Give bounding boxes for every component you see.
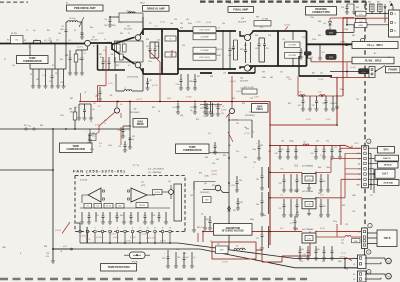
svg-text:DP-B-GND: DP-B-GND [384,182,394,184]
capacitor C3 [65,22,67,44]
svg-text:47µ: 47µ [92,135,95,137]
svg-text:(1.3V): (1.3V) [108,83,113,85]
resistor R6 emitter [75,50,77,73]
svg-text:C68: C68 [323,206,326,208]
svg-text:(0.8V): (0.8V) [254,97,259,99]
label REVERSE CONNECT PRO [306,7,337,15]
svg-text:(0.03V): (0.03V) [113,237,119,239]
wire fan box bottom left step [76,223,87,243]
svg-text:R13: R13 [120,33,123,35]
transistor Q5 2SC2879 [244,65,250,71]
svg-text:R89: R89 [210,116,213,118]
svg-text:L19: L19 [322,52,325,54]
red wire fil W3 [311,61,352,63]
wire drive interstage bottom run [178,68,236,70]
svg-text:R50a: R50a [340,89,344,91]
svg-text:560: 560 [216,159,219,161]
svg-text:C4a: C4a [320,73,323,75]
svg-text:R89a: R89a [189,81,193,83]
svg-text:C8: C8 [169,54,171,56]
svg-text:13: 13 [169,228,171,230]
IC2 ground stub [308,209,310,214]
svg-text:(6V): (6V) [260,27,264,29]
svg-text:12: 12 [162,228,164,230]
svg-text:M: M [388,260,390,263]
label ABSORPTION OF SURGE VOLTAGE [214,224,253,236]
wire Q3 bottom rail [143,73,162,75]
thermistor TH2 box [89,134,96,141]
svg-text:470µ: 470µ [253,149,257,151]
svg-text:C44: C44 [182,45,185,47]
wires to connector block [372,6,393,23]
diode D6 [329,18,331,32]
svg-text:L13: L13 [219,49,222,51]
inductor L4 network box [119,13,143,22]
svg-text:R11: R11 [104,120,107,122]
circled number 2 lower [368,223,372,227]
svg-text:R47: R47 [377,2,380,4]
svg-text:M: M [388,276,390,279]
svg-text:R8 22k: R8 22k [139,205,145,207]
svg-text:R93: R93 [205,157,208,159]
svg-text:(8.1V): (8.1V) [320,228,325,230]
unit boundary dashed line top-left [0,1,28,3]
red wire IC2 out [316,197,345,199]
svg-text:5: 5 [110,228,111,230]
svg-text:47µ: 47µ [236,151,239,153]
combiner box components C9 [165,36,176,41]
svg-text:R96: R96 [233,210,236,212]
label TEMP COMPENSATION mid [60,143,93,152]
resistor R14 [117,44,121,52]
svg-text:R91: R91 [199,173,202,175]
svg-text:R6a: R6a [90,27,93,29]
wire bias row Q1 [30,44,66,70]
svg-text:+8: +8 [358,158,360,160]
wire Q4 base [240,31,244,36]
svg-text:R40: R40 [318,35,321,37]
resistor R6 [94,203,102,208]
svg-text:L17: L17 [303,142,306,144]
resistor R1 3W [11,36,24,44]
svg-text:(13.8V): (13.8V) [222,262,228,264]
inductor L2 [66,21,68,23]
svg-text:C11 680P: C11 680P [200,50,209,52]
bottom capacitor cluster [167,250,169,266]
capacitor C5 [81,50,83,73]
node bus junctions [52,128,54,130]
red wire fil row [343,17,389,19]
svg-text:L14: L14 [341,240,344,242]
svg-text:W5: W5 [24,125,27,127]
svg-text:R94: R94 [244,157,247,159]
svg-text:R35 5.6 (W): R35 5.6 (W) [244,87,254,89]
capacitor C6 [109,17,111,25]
svg-text:R60: R60 [318,167,321,169]
svg-text:4: 4 [102,228,103,230]
svg-text:C26: C26 [200,108,203,110]
svg-text:C66: C66 [256,204,259,206]
svg-text:10A-7-5: 10A-7-5 [383,157,391,160]
svg-text:D9: D9 [210,241,212,243]
red wire reverse protect vertical [342,18,344,97]
svg-text:IC1 : µPC4558G2: IC1 : µPC4558G2 [148,168,165,170]
final tank components C53 [258,38,260,62]
svg-text:C21: C21 [190,107,193,109]
svg-text:C1b: C1b [152,215,155,217]
svg-text:(0.6V): (0.6V) [95,125,100,127]
wire combiner rail right [177,29,179,74]
resistor R4 680 [63,69,65,86]
node Q8 junctions [228,157,230,159]
label TEMP COMPENSATION left top [17,56,49,64]
svg-text:C64: C64 [323,181,326,183]
bias network box Q2 Q3 [115,41,144,62]
svg-text:L6: L6 [236,246,238,248]
red wire drive tap short [171,50,173,57]
svg-text:(14.8V): (14.8V) [211,171,217,173]
svg-text:R42: R42 [232,98,235,100]
svg-text:(2V): (2V) [208,133,212,135]
svg-text:.068: .068 [60,29,63,31]
svg-text:(16.7V): (16.7V) [152,85,158,87]
capacitor C20 cluster [200,104,222,106]
resistor R88 680 [74,107,76,129]
fan pin squares [79,230,81,232]
svg-text:DRIVE A1 AMP: DRIVE A1 AMP [147,6,165,10]
svg-text:(0.68V): (0.68V) [221,110,227,112]
svg-text:C57: C57 [280,72,283,74]
resistor R16 [123,44,127,52]
svg-text:(5.2V): (5.2V) [86,239,91,241]
svg-text:COMPENSATION: COMPENSATION [66,148,85,151]
svg-text:C41a: C41a [148,61,152,63]
svg-text:C9: C9 [169,38,171,40]
wire Q2 collector [140,31,143,35]
inductor L16 output [292,31,294,40]
svg-text:C82: C82 [260,145,263,147]
wire gnd row [347,24,389,26]
fan unit dashed outline [75,176,185,232]
svg-text:R10: R10 [93,103,96,105]
svg-text:C60: C60 [281,141,284,143]
svg-text:(5.28V): (5.28V) [55,230,61,232]
svg-text:C46: C46 [216,49,219,51]
wire lower bus connector [0,128,130,130]
wire temp comp to Q8 column [209,152,229,154]
label TEMP DETECTION [101,264,137,271]
red wire IC2 row [270,197,302,199]
svg-text:C61: C61 [316,141,319,143]
label box 10A-7 [375,169,395,178]
svg-text:+13.8: +13.8 [356,153,360,155]
connector strip main [362,146,369,188]
red wire surge feed [202,232,204,243]
svg-text:5W: 5W [217,244,220,246]
svg-text:R95: R95 [206,219,209,221]
svg-text:C69a: C69a [262,215,266,217]
svg-text:D5: D5 [201,214,203,216]
resistor R9 22k [153,190,163,195]
capacitor C17 [147,78,149,88]
svg-text:R3: R3 [24,40,26,42]
svg-text:(0V): (0V) [44,40,48,42]
svg-text:(7.9V): (7.9V) [320,155,325,157]
svg-text:C14: C14 [118,130,121,132]
svg-text:FAN (X59-3370-00): FAN (X59-3370-00) [73,169,126,174]
diode D1 [32,69,34,86]
svg-text:R23: R23 [152,107,155,109]
svg-text:2SD1460(Y): 2SD1460(Y) [130,112,140,114]
resistor network top right [370,4,375,12]
svg-text:+8: +8 [358,174,360,176]
svg-text:R13a: R13a [112,25,116,27]
resistor R50 cluster right [336,95,338,107]
svg-text:C4: C4 [74,30,76,32]
svg-text:µPC78M08A: µPC78M08A [302,228,313,231]
svg-text:(2.5V): (2.5V) [126,240,131,242]
svg-text:10: 10 [158,111,160,113]
wire w2 row [336,25,354,33]
connector strip B [362,228,368,249]
fan interior wires [80,207,170,209]
svg-text:R34: R34 [256,16,259,18]
surge red box [212,242,256,259]
svg-text:C40: C40 [157,40,160,42]
capacitor C4B [69,50,71,73]
svg-text:R36a: R36a [262,77,266,79]
capacitor C26 pair near Q7 [204,102,206,113]
red wires into strip B [337,231,362,233]
svg-text:C55: C55 [302,37,305,39]
wire Q6 collector column [129,102,131,148]
svg-text:.6µ: .6µ [33,30,35,32]
svg-text:POWER: POWER [388,69,397,72]
svg-text:R96a: R96a [250,219,254,221]
resistor R95 5W [216,246,229,254]
diode D7 [384,4,386,11]
wire RF output line [307,43,353,45]
svg-text:R3a: R3a [120,215,123,217]
svg-text:C50: C50 [268,35,271,37]
svg-text:(0.6V): (0.6V) [206,22,212,24]
red wire bias feed from Q1 [98,46,107,102]
svg-text:10: 10 [104,61,106,63]
svg-text:47µ: 47µ [341,242,344,244]
svg-text:(0.66V): (0.66V) [215,106,221,108]
wires pins to boxes [369,148,379,184]
svg-text:C81: C81 [228,145,231,147]
svg-text:R22: R22 [116,65,119,67]
svg-text:FINAL: FINAL [256,108,263,111]
wire Q8 base divider [194,182,216,191]
svg-text:C6: C6 [105,19,107,21]
connector plugs on bus [25,128,27,130]
svg-text:C56: C56 [341,7,344,9]
svg-text:10µ: 10µ [190,110,193,112]
svg-text:C17: C17 [149,80,152,82]
wire final mid rail [277,31,279,66]
svg-text:Q1 : 2SB766A: Q1 : 2SB766A [148,171,161,174]
svg-text:(0.8): (0.8) [288,79,292,81]
svg-text:C7: C7 [99,54,101,56]
svg-text:2SC2879: 2SC2879 [238,21,246,23]
label GND small box [352,239,361,243]
svg-text:C60: C60 [275,153,278,155]
svg-text:(1.6V): (1.6V) [196,22,201,24]
svg-text:D2: D2 [55,73,57,75]
svg-text:C1a: C1a [12,65,15,67]
svg-text:(0.03V): (0.03V) [142,234,148,236]
wires strip B to TRF box [367,233,377,244]
wires fan1 to motor [365,258,385,264]
svg-text:(13.8V): (13.8V) [350,67,356,69]
svg-text:680: 680 [270,77,273,79]
wire drive interstage top run [178,30,236,32]
label box DP-B-GND [378,180,400,186]
svg-text:L10: L10 [299,92,302,94]
inductor L3 [45,69,47,86]
diode D2 [57,69,59,86]
svg-text:R19 5.6 (W): R19 5.6 (W) [199,57,210,59]
svg-text:L7: L7 [124,88,126,90]
svg-text:R: ¼ W: R: ¼ W [133,164,139,167]
fan motor M1 [386,258,392,264]
svg-text:C77: C77 [370,195,373,197]
svg-text:R37: R37 [197,76,200,78]
wire L3 tap [53,248,70,250]
svg-text:C16: C16 [118,146,121,148]
svg-text:D6: D6 [324,23,326,25]
svg-text:COMPENSATION: COMPENSATION [183,149,202,152]
svg-text:(0.03-3.1V): (0.03-3.1V) [146,238,155,240]
svg-text:R63: R63 [342,205,345,207]
wire Q1 matching feed [98,45,126,71]
label TEMP COMPENSATION right [176,144,210,153]
unit boundary dashed corner top-right [365,2,367,10]
svg-text:100µ: 100µ [241,248,245,250]
transistor Q6 2SD1460 [114,108,119,113]
svg-text:1000µ: 1000µ [289,141,294,143]
red wire Q6 emitter diag [99,112,115,132]
red wire B minus row [352,236,362,238]
svg-text:C16: C16 [96,95,99,97]
connector pin box power [369,67,375,78]
transistor Q4 2SC2879 [244,34,250,40]
svg-text:R6: R6 [79,59,81,61]
resistor R15 [120,54,124,60]
svg-text:R8b: R8b [111,54,114,56]
svg-text:R48: R48 [318,21,321,23]
capacitor C84 pair [236,176,238,190]
fan connector rect [174,184,182,221]
svg-text:C11a: C11a [60,115,64,117]
svg-text:C53: C53 [266,48,269,50]
wire antenna pin row 1 [354,13,389,15]
red wire R12 branch [120,127,122,145]
svg-text:R12: R12 [99,143,102,145]
svg-text:C76: C76 [300,261,303,263]
svg-text:(0V): (0V) [310,57,314,59]
capacitor C47 [229,31,231,69]
svg-text:L15: L15 [282,39,285,41]
inductor L13 [222,31,224,69]
wire Q4 collector to top rail [250,32,253,36]
svg-text:C71: C71 [290,223,293,225]
svg-text:DP-B-W: DP-B-W [384,165,393,167]
svg-text:C13: C13 [49,81,52,83]
svg-text:R38: R38 [210,76,213,78]
svg-text:2SD2012(?): 2SD2012(?) [200,192,210,194]
top cap cluster row1 [279,146,281,158]
fan motor branch caps [294,216,296,228]
svg-text:(4V): (4V) [180,115,184,117]
svg-text:10µ: 10µ [244,127,247,129]
resistor R19 5.6 [193,54,216,60]
red wire IC1 out [316,158,362,172]
svg-text:+16.7V: +16.7V [136,99,143,101]
capacitor C40 220p cluster [149,42,151,58]
connector pill W4 [359,69,369,74]
svg-text:1.2k: 1.2k [154,26,157,28]
svg-text:+: + [253,167,254,169]
svg-text:R7a: R7a [100,57,103,59]
svg-text:(1.9V): (1.9V) [240,88,245,90]
svg-text:(0.03V): (0.03V) [96,237,102,239]
svg-text:1k: 1k [99,146,101,148]
svg-text:µPC78M05A: µPC78M05A [302,190,313,193]
transistor Q1 2SC1971 [85,40,91,46]
pin label L4 [356,11,367,16]
IC3 side caps [261,226,263,248]
thermistor RT1 [130,252,146,258]
svg-text:R2a: R2a [47,30,50,32]
svg-text:L8b: L8b [170,23,173,25]
svg-text:∗L1: ∗L1 [28,124,32,127]
svg-text:(0.01V): (0.01V) [110,234,116,236]
svg-text:470: 470 [46,256,49,258]
svg-text:R24: R24 [242,103,245,105]
svg-text:R45: R45 [356,7,359,9]
node junction left [52,169,54,171]
svg-text:L9: L9 [218,28,220,30]
connector pill W3 [326,54,336,59]
wire Q1 collector to drive stage [90,42,112,44]
svg-text:W2-3: W2-3 [140,3,145,5]
label box DP-5 [378,147,395,153]
svg-text:L1: L1 [26,30,28,32]
arrow mark [390,3,393,6]
svg-text:IC1(1/2): IC1(1/2) [80,179,88,181]
svg-text:9: 9 [140,228,141,230]
wire left edge branch [0,169,53,171]
wire bottom bus sloped upper [178,243,357,259]
svg-text:R99a: R99a [316,249,320,251]
svg-text:R39: R39 [262,72,265,74]
svg-text:C47: C47 [186,257,189,259]
svg-text:CONNECT PRO: CONNECT PRO [312,10,330,14]
svg-text:R36: R36 [255,35,258,37]
svg-text:(0.03V): (0.03V) [130,237,136,239]
red wire final bias branch [231,76,233,108]
wire bottom bus sloped lower [200,249,345,268]
svg-text:C62: C62 [256,179,259,181]
wire bottom link [356,258,357,260]
red wire IC3 row [203,231,302,233]
IC2 side caps [261,192,263,214]
capacitor C10 680P [193,34,216,40]
svg-text:R41: R41 [312,73,315,75]
